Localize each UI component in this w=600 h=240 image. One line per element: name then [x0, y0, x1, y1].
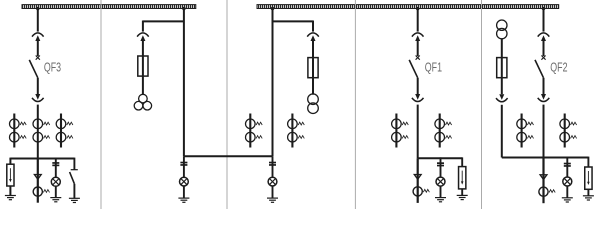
ground (arrester, panel 5)	[583, 196, 594, 200]
label QF3	[44, 60, 61, 74]
fuse FU2	[308, 58, 318, 78]
indicator lamp (tie, right)	[268, 177, 277, 186]
fuse FU1	[138, 56, 148, 76]
indicator lamp (panel 4)	[436, 177, 445, 186]
ground (lamp, panel 1)	[50, 198, 61, 202]
lower drawout contact (panel 5 VT)	[496, 94, 508, 102]
upper drawout contact (panel 2 VT)	[137, 33, 149, 41]
label QF2	[550, 60, 567, 74]
wire tie riser from busbar W2 to tie link	[272, 9, 274, 157]
wire horizontal branch link (panel 4)	[418, 157, 463, 159]
current transformer left core (panel 3)	[246, 114, 263, 148]
wire contact to fuse FU1	[142, 41, 144, 95]
ground (arrester, panel 1)	[5, 196, 16, 200]
upper drawout contact (panel 3 VT)	[307, 33, 319, 41]
node on busbar W1 (riser tap)	[182, 7, 185, 10]
wire cable stub (QF2 feeder)	[542, 158, 544, 204]
circuit breaker QF1 fixed contact mark	[416, 56, 420, 60]
voltage transformer TV1 (three windings)	[134, 94, 151, 110]
wire lamp to ground (tie, left)	[183, 186, 185, 198]
cable termination (QF1 feeder)	[413, 174, 422, 181]
capacitor of live-line indicator (tie, right)	[269, 162, 276, 166]
node on busbar W1 (QF3 feeder tap)	[36, 7, 39, 10]
earthing switch QS fixed contact tick	[71, 169, 78, 171]
wire lower contact to cable (QF3 feeder)	[37, 105, 39, 159]
current transformer left core (panel 5)	[517, 114, 534, 148]
wire transformer to fuse FU3	[501, 39, 503, 95]
busbar W1 (left bus section)	[22, 5, 196, 9]
wire contact to breaker QF3	[37, 41, 39, 56]
lower drawout contact (QF3)	[32, 94, 44, 102]
wire cable stub (QF1 feeder)	[417, 158, 419, 203]
wire lamp to ground (tie, right)	[272, 186, 274, 198]
wire lamp to ground (panel 4)	[440, 186, 442, 197]
wire lower contact to cable (QF2 feeder)	[543, 105, 545, 158]
wire cable stub (QF3 feeder)	[37, 159, 39, 203]
wire breaker to lower contact (QF2)	[543, 78, 545, 94]
panel divider 2	[226, 0, 228, 209]
lower drawout contact (QF2)	[538, 94, 550, 102]
cable termination (QF3 feeder)	[33, 174, 42, 181]
current transformer right core (panel 3)	[288, 114, 305, 148]
indicator lamp (panel 1)	[51, 177, 60, 186]
fuse FU3	[497, 58, 507, 78]
voltage transformer TV3 (two windings)	[497, 20, 507, 39]
wire arrester to ground	[9, 186, 11, 195]
wire contact to breaker QF1	[417, 41, 419, 56]
wire link to arrester (panel 5)	[587, 157, 589, 167]
wire arrester to ground (panel 4)	[461, 189, 463, 195]
wire breaker to lower contact (QF3)	[37, 78, 39, 94]
wire busbar to upper contact (QF2)	[543, 9, 545, 32]
wire capacitor to lamp (panel 1)	[55, 158, 57, 178]
ground (lamp, panel 4)	[435, 198, 446, 202]
surge arrester F3	[585, 167, 592, 189]
zero-sequence CT (QF1 feeder)	[413, 187, 429, 196]
wire contact to link (panel 5 VT)	[501, 105, 503, 158]
node on busbar W2 (QF2 feeder tap)	[542, 7, 545, 10]
upper drawout contact (QF2)	[538, 33, 550, 41]
wire capacitor to lamp (panel 4)	[440, 157, 442, 177]
wire capacitor to lamp (tie, left)	[183, 156, 185, 177]
capacitor of live-line indicator (panel 5)	[564, 163, 571, 167]
cable termination (QF2 feeder)	[539, 174, 548, 181]
current transformer TA middle core (panel 1)	[33, 119, 50, 142]
current transformer right core (panel 4)	[435, 114, 452, 148]
circuit breaker QF2 blade	[535, 60, 544, 78]
surge arrester F2	[459, 167, 466, 189]
upper drawout contact (QF3)	[32, 33, 44, 41]
current transformer TA left core (panel 1)	[10, 114, 27, 148]
indicator lamp (tie, left)	[180, 177, 189, 186]
bus tie link wire	[184, 155, 273, 157]
svg-text:QF3: QF3	[44, 60, 61, 74]
ground (tie, left)	[178, 198, 189, 202]
wire link to arrester (panel 1)	[9, 158, 11, 165]
panel divider 4	[481, 0, 483, 209]
circuit breaker QF3 fixed contact mark	[36, 56, 40, 60]
earthing switch QS blade	[70, 172, 75, 184]
node on busbar W2 (tie riser tap)	[271, 7, 274, 10]
wire horizontal branch link (panel 1)	[10, 158, 74, 160]
capacitor of live-line indicator (panel 4)	[437, 162, 444, 166]
wire branch horizontal to fuse column (panel 3)	[273, 20, 314, 22]
wire capacitor to lamp (tie, right)	[272, 156, 274, 177]
upper drawout contact (QF1)	[412, 33, 424, 41]
panel divider 3	[354, 0, 356, 209]
current transformer TA right core (panel 1)	[56, 114, 73, 148]
wire contact to fuse FU2	[312, 41, 314, 95]
zero-sequence CT (QF3 feeder)	[33, 187, 49, 196]
wire horizontal branch link (panel 5)	[502, 157, 589, 159]
capacitor of live-line indicator (panel 1)	[52, 162, 59, 166]
zero-sequence CT (QF2 feeder)	[539, 187, 555, 196]
wire arrester to ground (panel 5)	[587, 189, 589, 195]
svg-text:QF1: QF1	[425, 60, 442, 74]
wire lamp to ground (panel 5)	[566, 186, 568, 198]
wire branch down (panel 3 VT)	[312, 21, 314, 32]
ground (earthing switch)	[69, 198, 80, 202]
wire link to earthing switch (panel 1)	[73, 158, 75, 170]
circuit breaker QF1 blade	[409, 60, 418, 78]
node on busbar W2 (QF1 feeder tap)	[416, 7, 419, 10]
indicator lamp (panel 5)	[563, 177, 572, 186]
circuit breaker QF3 blade	[29, 60, 38, 78]
wire breaker to lower contact (QF1)	[417, 78, 419, 94]
ground (arrester, panel 4)	[457, 195, 468, 199]
current transformer right core (panel 5)	[560, 114, 577, 148]
wire lower contact to cable (QF1 feeder)	[417, 105, 419, 159]
wire busbar to upper contact (QF3)	[37, 9, 39, 32]
panel divider 1	[100, 0, 102, 209]
wire link to arrester (panel 4)	[461, 157, 463, 166]
svg-text:QF2: QF2	[550, 60, 567, 74]
wire busbar to upper contact (QF1)	[417, 9, 419, 32]
lower drawout contact (QF1)	[412, 94, 424, 102]
label QF1	[425, 60, 442, 74]
voltage transformer TV2 (two windings)	[308, 94, 319, 114]
wire capacitor to lamp (panel 5)	[566, 158, 568, 178]
wire contact to breaker QF2	[543, 41, 545, 56]
wire riser from busbar to tie link	[183, 9, 185, 157]
busbar W2 (right bus section)	[257, 5, 559, 9]
current transformer left core (panel 4)	[392, 114, 409, 148]
wire lamp to ground (panel 1)	[55, 186, 57, 197]
wire earthing switch to ground	[73, 184, 75, 198]
wire branch horizontal to fuse column (panel 2)	[143, 20, 184, 22]
wire branch down (panel 2 VT)	[142, 21, 144, 32]
ground (lamp, panel 5)	[562, 198, 573, 202]
surge arrester F1	[7, 164, 14, 186]
capacitor of live-line indicator (tie, left)	[180, 162, 187, 166]
circuit breaker QF2 fixed contact mark	[541, 56, 545, 60]
ground (tie, right)	[267, 198, 278, 202]
